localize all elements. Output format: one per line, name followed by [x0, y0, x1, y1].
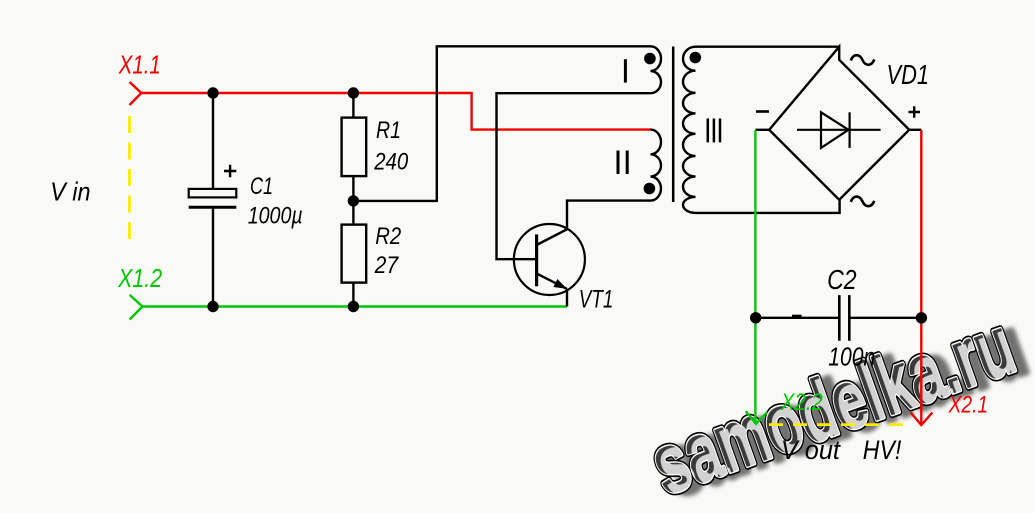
- connector X1.2: [130, 295, 143, 320]
- node junction rail2-C1: [207, 301, 218, 312]
- wire thick mark: [792, 315, 802, 319]
- diode inside VD1: [797, 129, 881, 131]
- transformer winding III: [683, 47, 840, 213]
- node junction rail1-R1: [348, 87, 359, 98]
- svg-text:V in: V in: [50, 176, 91, 206]
- svg-text:HV!: HV!: [863, 435, 902, 465]
- wire R2 top: [352, 201, 354, 225]
- svg-text:C1: C1: [250, 173, 273, 200]
- wire red output: [920, 130, 922, 425]
- connector X2.2 arrow: [746, 411, 768, 424]
- wire C2 right: [849, 317, 921, 319]
- node junction R1-R2: [348, 195, 359, 206]
- VD1 plus sign: [909, 106, 921, 117]
- connector X1.1: [130, 82, 142, 105]
- VD1 ac tilde bottom: [851, 197, 875, 207]
- wire green ground rail: [143, 305, 568, 307]
- resistor R2: [342, 225, 367, 283]
- svg-text:X1.2: X1.2: [117, 265, 162, 293]
- wire R1 top: [352, 93, 354, 118]
- node junction rail1-C1: [207, 87, 218, 98]
- wire VD1 plus stub: [909, 129, 921, 131]
- svg-text:1000µ: 1000µ: [248, 203, 303, 230]
- label III: [708, 119, 720, 143]
- wire winding I to base: [497, 93, 651, 259]
- wire node to winding I: [353, 46, 650, 201]
- svg-text:V out: V out: [781, 435, 841, 465]
- svg-text:VD1: VD1: [887, 59, 930, 90]
- svg-text:27: 27: [374, 252, 400, 279]
- svg-text:R2: R2: [375, 223, 401, 250]
- label I: [624, 59, 627, 82]
- wire R1 bottom: [352, 176, 354, 201]
- bridge rectifier VD1: [769, 47, 909, 200]
- node junction C2 left: [750, 312, 761, 323]
- svg-text:100n: 100n: [828, 341, 875, 371]
- wire C2 left: [756, 317, 840, 319]
- wire C1 bottom: [212, 209, 214, 307]
- node junction C2 right: [916, 312, 927, 323]
- svg-text:C2: C2: [827, 264, 857, 295]
- winding I polarity dot: [644, 53, 656, 65]
- transformer core: [672, 47, 675, 203]
- C1 plus sign: [224, 165, 236, 177]
- transformer winding II: [651, 130, 662, 201]
- transformer winding I: [651, 46, 662, 93]
- VD1 ac tilde top: [851, 55, 875, 65]
- wire R2 bottom: [352, 283, 354, 307]
- svg-text:X2.1: X2.1: [948, 392, 988, 419]
- label II: [618, 151, 627, 175]
- capacitor C1: [189, 189, 237, 198]
- wire winding II to collector: [567, 201, 651, 230]
- svg-text:X2.2: X2.2: [780, 389, 823, 416]
- wire dashed output outline: [769, 423, 910, 426]
- winding II polarity dot: [644, 183, 656, 195]
- watermark samodelka.ru: [640, 295, 1035, 513]
- connector X2.1 arrow: [911, 413, 933, 426]
- winding III polarity dot: [690, 52, 702, 64]
- svg-text:VT1: VT1: [579, 285, 614, 313]
- VD1 minus sign: [756, 110, 769, 113]
- svg-text:X1.1: X1.1: [118, 50, 161, 80]
- svg-text:240: 240: [373, 148, 408, 175]
- capacitor C2: [839, 295, 849, 341]
- wire dashed connector outline: [128, 116, 131, 248]
- wire red V+ rail: [141, 93, 650, 130]
- transistor VT1: [514, 224, 585, 307]
- wire green output: [754, 130, 756, 424]
- wire VD1 minus stub: [755, 129, 769, 131]
- node junction rail2-R2: [348, 301, 359, 312]
- svg-text:R1: R1: [376, 117, 401, 144]
- wire C1 top: [212, 93, 214, 189]
- resistor R1: [342, 118, 367, 177]
